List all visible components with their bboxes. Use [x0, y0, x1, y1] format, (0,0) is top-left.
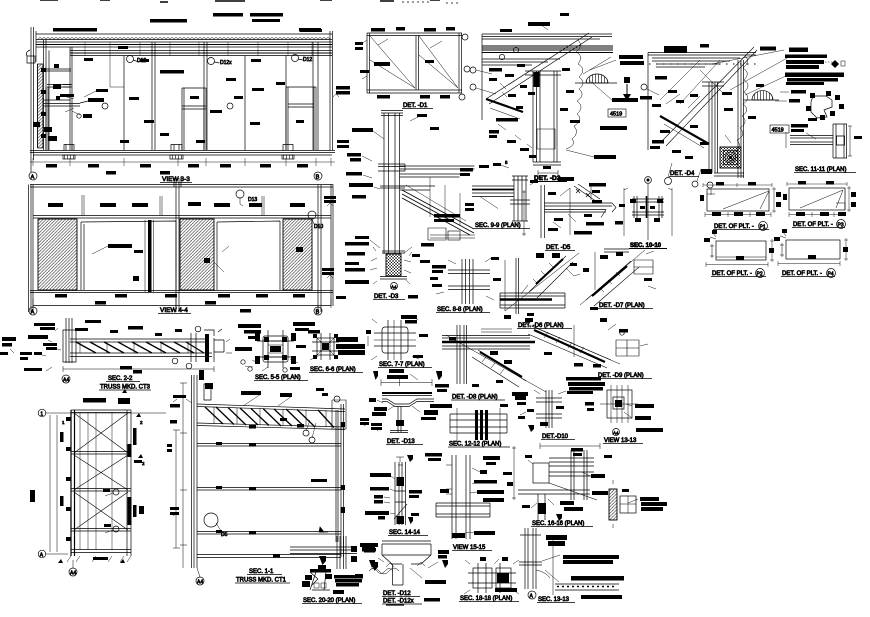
D10 bubble — [308, 211, 316, 219]
left dim lines — [176, 383, 183, 568]
view 4-4 elevation — [29, 178, 347, 315]
svg-text:SEC. 12-12 (PLAN): SEC. 12-12 (PLAN) — [449, 442, 501, 448]
section 14-14 — [365, 455, 428, 536]
interior fixtures and text bars — [33, 46, 304, 143]
top slab lines — [30, 185, 333, 188]
mini bent plate detail far right — [811, 96, 832, 118]
bottom chord — [197, 423, 345, 430]
small bolt texts — [489, 64, 580, 158]
svg-text:A: A — [31, 174, 35, 180]
detail D7 plan — [580, 249, 656, 310]
svg-text:SEC. 11-11 (PLAN): SEC. 11-11 (PLAN) — [795, 167, 846, 173]
svg-text:A4: A4 — [613, 431, 619, 436]
svg-text:DET. -D13: DET. -D13 — [387, 439, 415, 445]
scattered bolt texts — [640, 76, 764, 159]
svg-text:D12x: D12x — [220, 60, 232, 66]
detail D13 — [360, 369, 452, 445]
bent plate — [382, 399, 434, 407]
diagonal brace — [529, 256, 573, 298]
section 6-6 plan — [308, 330, 365, 373]
eave band beams — [36, 42, 332, 56]
column top gusset — [204, 384, 211, 400]
svg-text:DET. -D5: DET. -D5 — [546, 245, 571, 251]
horizontal mid lines — [400, 186, 435, 190]
leaders and bars right — [500, 13, 644, 159]
grid bubble A — [38, 550, 46, 558]
stiffener marks on left chord — [30, 398, 144, 560]
detail D10 — [515, 390, 575, 440]
right chord — [127, 410, 131, 556]
small flag arrows — [58, 389, 143, 563]
top annotation bars — [167, 388, 328, 515]
plate detail P4 — [774, 229, 848, 278]
svg-text:A4: A4 — [63, 378, 69, 384]
bullseye base — [720, 147, 741, 168]
svg-text:SEC. 7-7 (PLAN): SEC. 7-7 (PLAN) — [379, 362, 425, 368]
svg-text:A4: A4 — [197, 580, 203, 586]
svg-text:SEC. 1-1: SEC. 1-1 — [249, 569, 274, 575]
detail D12 — [355, 541, 449, 605]
svg-text:DET. -D2: DET. -D2 — [534, 175, 561, 182]
svg-text:SEC. 13-13: SEC. 13-13 — [538, 597, 570, 603]
right hatched wall mini detail — [609, 480, 667, 528]
dim lines — [46, 413, 166, 554]
detail D1 — [355, 27, 470, 109]
left chord — [71, 410, 75, 556]
svg-text:DET. -D3: DET. -D3 — [374, 294, 399, 300]
left column — [192, 375, 198, 568]
svg-text:DET.-D10: DET.-D10 — [542, 434, 569, 440]
view 3-3 elevation — [26, 0, 440, 183]
truss section SEC 1-1 CT1 panel — [167, 370, 346, 586]
top chord — [70, 339, 206, 342]
detail D8 plan — [435, 325, 546, 401]
down arrow — [626, 84, 628, 94]
detail D3 column — [345, 111, 475, 301]
bay column D12 left — [124, 42, 155, 150]
plate detail P3 — [783, 181, 856, 229]
detail D6 plan — [500, 253, 580, 329]
detail D5 — [522, 177, 623, 251]
vertical — [516, 258, 519, 314]
collar plates — [378, 164, 405, 171]
dotted separator top — [402, 2, 758, 64]
right columns — [336, 404, 344, 557]
top cut-off dimension marks — [40, 0, 440, 2]
bottom bubble — [69, 568, 77, 576]
svg-text:SEC. 5-5 (PLAN): SEC. 5-5 (PLAN) — [255, 375, 301, 381]
svg-text:DET. -D8 (PLAN): DET. -D8 (PLAN) — [452, 395, 498, 401]
truss plan CT3 (X-braced) — [30, 389, 166, 577]
web diagonals — [76, 342, 204, 353]
hanger — [390, 407, 408, 433]
circle D12 — [127, 56, 134, 63]
left bay framing — [44, 47, 73, 150]
big diagonal brace — [486, 33, 592, 104]
svg-text:DET. OF PLT. -: DET. OF PLT. - — [782, 271, 822, 277]
svg-text:DET. -D1: DET. -D1 — [403, 103, 428, 109]
view 13-13 — [585, 385, 663, 444]
panel joints — [245, 56, 286, 151]
svg-text:DET. -D12x: DET. -D12x — [383, 599, 414, 605]
section 18-18 plan — [459, 557, 519, 602]
bottom edge cut mark — [386, 604, 404, 606]
top/bottom and rungs — [71, 410, 131, 553]
internal purlin lines — [80, 412, 112, 550]
clip at beam — [428, 228, 475, 240]
svg-text:DET. OF PLT. -: DET. OF PLT. - — [793, 222, 833, 228]
sloping brace to lower right — [402, 190, 474, 235]
plate detail P1 — [700, 182, 781, 231]
svg-text:SEC. 16-16 (PLAN): SEC. 16-16 (PLAN) — [532, 521, 584, 527]
column bases — [63, 145, 294, 160]
svg-text:TRUSS MKD. CT3: TRUSS MKD. CT3 — [100, 385, 151, 391]
section 13-13 — [519, 528, 624, 603]
misc bars above right — [299, 28, 321, 32]
hatched masonry panels — [38, 219, 77, 290]
bottom ticks — [67, 556, 131, 562]
base beam — [500, 293, 565, 308]
right end connection box — [332, 400, 346, 429]
D13 bubble — [236, 190, 244, 198]
interior labels — [108, 244, 303, 281]
beam center marks — [216, 418, 327, 558]
svg-text:1: 1 — [62, 420, 65, 425]
svg-text:B: B — [316, 309, 320, 315]
mid door frame — [182, 88, 206, 150]
bottom lines — [30, 291, 333, 306]
svg-text:TRUSS MKD. CT1: TRUSS MKD. CT1 — [236, 578, 287, 584]
note block above sec 13-13 — [566, 377, 605, 394]
svg-text:SEC. 8-8 (PLAN): SEC. 8-8 (PLAN) — [437, 307, 483, 313]
title — [62, 375, 70, 383]
truss section SEC 2-2 CT3 — [0, 318, 224, 391]
hatch arch — [586, 74, 608, 83]
hatch arch — [752, 91, 773, 100]
right columns — [313, 31, 333, 150]
left hatched wall strip — [38, 64, 44, 148]
section 5-5 plan — [226, 322, 315, 381]
svg-text:DET. -D12: DET. -D12 — [383, 591, 411, 597]
left gutter / wall edge — [31, 27, 46, 172]
D5 bubble — [204, 513, 218, 527]
svg-text:A4: A4 — [391, 285, 397, 290]
anchor symbols around base — [370, 258, 411, 273]
column — [709, 82, 718, 173]
svg-text:D12: D12 — [303, 57, 312, 63]
roof corrugated sheet — [36, 34, 332, 40]
svg-text:D5: D5 — [221, 532, 228, 538]
left column of truss — [63, 318, 76, 363]
text bars — [345, 114, 460, 284]
floor lines — [30, 151, 335, 156]
column shaft — [384, 113, 400, 254]
svg-text:SEC. 18-18 (PLAN): SEC. 18-18 (PLAN) — [460, 596, 512, 602]
panel horizontals — [197, 444, 341, 558]
right beam lines — [400, 166, 475, 177]
cloud boundary — [566, 40, 583, 149]
svg-text:DET. -D4: DET. -D4 — [670, 171, 695, 177]
grid bubbles A B — [29, 172, 37, 180]
node circles — [113, 489, 119, 495]
column D12x — [204, 42, 207, 150]
45191 box — [770, 125, 789, 133]
svg-text:VIEW 13-13: VIEW 13-13 — [604, 438, 637, 444]
base plate hatched — [386, 254, 401, 276]
svg-text:1: 1 — [40, 412, 43, 418]
grid bubbles — [29, 307, 37, 315]
top cap — [381, 111, 403, 116]
door openings — [81, 221, 176, 290]
svg-text:4519: 4519 — [610, 112, 622, 118]
bottom arrow — [319, 527, 324, 532]
svg-text:SEC. 6-6 (PLAN): SEC. 6-6 (PLAN) — [310, 367, 356, 373]
svg-text:A4: A4 — [70, 571, 76, 577]
section 10-10 — [619, 177, 672, 249]
svg-text:2: 2 — [142, 461, 145, 466]
section 12-12 plan — [443, 404, 510, 448]
top right note block — [712, 47, 845, 121]
svg-text:SEC. 2-2: SEC. 2-2 — [108, 376, 133, 382]
column shaft — [533, 71, 557, 162]
section 8-8 plan — [430, 257, 501, 313]
section 7-7 plan — [366, 315, 432, 368]
svg-text:DET. OF PLT. -: DET. OF PLT. - — [714, 224, 754, 230]
truss diagonals — [205, 407, 334, 428]
detail D4 — [623, 44, 789, 188]
svg-text:DET. -D6 (PLAN): DET. -D6 (PLAN) — [518, 323, 564, 329]
view 15-15 — [425, 453, 504, 551]
detail D9 plan — [522, 318, 652, 379]
svg-text:4519: 4519 — [772, 128, 784, 134]
left edge — [481, 34, 483, 120]
plate detail P2 — [704, 230, 774, 278]
svg-text:SEC. 14-14: SEC. 14-14 — [389, 530, 421, 536]
cloud boundary — [727, 55, 748, 163]
bottom box — [537, 129, 555, 149]
right side dim text — [336, 86, 350, 148]
grid bubble 1 — [38, 409, 46, 417]
squiggle break line — [369, 569, 393, 574]
roof slab lines — [482, 34, 612, 39]
ground circle and title — [391, 283, 398, 290]
section 20-20 plan cluster — [290, 536, 399, 604]
purlin ticks on eave — [85, 42, 312, 56]
svg-text:VIEW 15-15: VIEW 15-15 — [453, 545, 486, 551]
svg-text:VIEW 4-4: VIEW 4-4 — [160, 307, 188, 314]
svg-text:D13: D13 — [248, 197, 257, 203]
svg-text:2: 2 — [140, 420, 143, 425]
top chord — [197, 404, 345, 412]
upper band with ticks — [33, 216, 331, 219]
side columns — [29, 178, 334, 312]
right dim stack — [322, 196, 336, 275]
right end connection — [191, 330, 214, 362]
svg-text:DET. -D7 (PLAN): DET. -D7 (PLAN) — [599, 303, 645, 309]
svg-text:SEC. 9-9 (PLAN): SEC. 9-9 (PLAN) — [475, 223, 521, 229]
svg-text:B: B — [316, 174, 320, 180]
detail D2 — [470, 13, 644, 182]
section 16-16 plan — [503, 443, 612, 527]
bottom chord — [70, 353, 212, 357]
text bars above roof — [53, 13, 322, 32]
4519 box — [608, 109, 626, 117]
svg-text:5: 5 — [505, 160, 508, 165]
svg-text:SEC. 20-20 (PLAN): SEC. 20-20 (PLAN) — [303, 598, 355, 604]
dimension line — [63, 366, 214, 372]
diagonals — [660, 47, 757, 146]
svg-text:DET. -D9 (PLAN): DET. -D9 (PLAN) — [598, 373, 644, 379]
svg-text:A: A — [31, 309, 35, 315]
black joint bar — [148, 220, 152, 292]
dimension line under elevation — [30, 161, 335, 163]
section 9-9 plan — [460, 160, 536, 229]
svg-text:D10: D10 — [314, 224, 323, 230]
right door frame — [286, 87, 316, 150]
leader lines inside — [60, 91, 96, 112]
svg-text:DET. OF PLT. -: DET. OF PLT. - — [712, 271, 752, 277]
section 11-11 plan — [786, 118, 862, 173]
X braces — [74, 413, 128, 530]
